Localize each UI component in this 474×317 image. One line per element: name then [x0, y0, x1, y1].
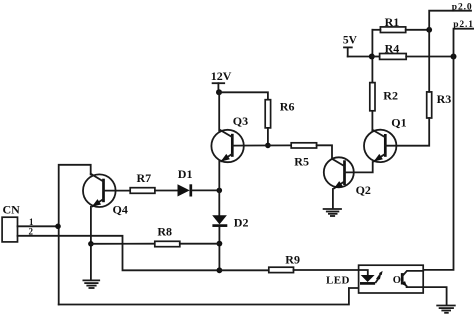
svg-text:Q2: Q2 — [356, 183, 371, 197]
wire R1 right lead to p2.0 node — [406, 29, 430, 31]
wire D1 to Q3 emitter line — [192, 189, 219, 191]
power 5V supply — [343, 35, 372, 57]
wire Q4 base to R7 — [104, 190, 131, 192]
wire R9 right lead to optocoupler LED anode — [294, 269, 359, 271]
power 12V supply — [211, 69, 232, 92]
optocoupler O1 box — [359, 265, 424, 293]
svg-text:R3: R3 — [437, 92, 452, 106]
wire Q4 emitter node to R8 — [91, 243, 155, 245]
node junction D2 / R9 line — [217, 267, 223, 273]
wire Q3 emitter down to D1 node — [218, 162, 220, 191]
node junction 5V / R4 left — [369, 54, 375, 60]
svg-text:CN: CN — [3, 203, 21, 217]
transistor Q1 — [364, 115, 407, 162]
wire CN pin 1 to left rail — [18, 225, 59, 227]
svg-text:p2.1: p2.1 — [453, 20, 474, 30]
svg-text:LED: LED — [326, 274, 350, 286]
node junction pin1/left rail — [55, 224, 61, 230]
wire R8 right lead to D2 node — [180, 243, 220, 245]
diode D2 — [212, 215, 248, 229]
ground below Q2 — [324, 209, 341, 216]
wire CN pin 2 elbow to D2 bottom node — [18, 236, 220, 270]
svg-text:p2.0: p2.0 — [452, 2, 473, 12]
wire right rail p2.1 down to optocoupler collector — [423, 57, 453, 270]
wire Q4 emitter down — [90, 207, 92, 280]
svg-text:D2: D2 — [234, 215, 249, 229]
wire R7 to D1 — [155, 190, 178, 192]
wire R5 to Q2 collector — [317, 145, 332, 159]
wire Q2 emitter to ground — [332, 189, 334, 209]
node junction D1 / Q3 emitter — [217, 188, 223, 194]
svg-text:R2: R2 — [383, 89, 398, 103]
wire R6 bottom lead — [267, 128, 269, 145]
node junction R6 / Q3 base — [265, 143, 271, 149]
svg-text:R7: R7 — [137, 171, 152, 185]
svg-text:R5: R5 — [294, 154, 309, 168]
transistor Q2 — [324, 157, 371, 197]
svg-text:R6: R6 — [280, 99, 295, 113]
resistor R9 — [269, 252, 300, 272]
wire left rail from Q4 collector loop down to bottom rail — [59, 165, 91, 305]
wire R4 right lead — [406, 56, 453, 58]
wire optocoupler emitter to ground — [423, 287, 446, 305]
node junction D2 / R8 — [217, 241, 223, 247]
resistor R7 — [130, 171, 155, 194]
wire D1 node down through D2 to R8/R9 nodes — [218, 190, 220, 215]
resistor R2 — [370, 83, 398, 111]
optocoupler light arrows — [376, 271, 383, 282]
optocoupler LED — [360, 275, 375, 283]
wire Q3 collector up to 12V node — [218, 92, 220, 130]
ground below optocoupler — [437, 306, 455, 313]
svg-text:D1: D1 — [178, 167, 193, 181]
node p2.1 — [453, 20, 474, 57]
label O (optocoupler) — [393, 275, 401, 286]
resistor R8 — [155, 225, 180, 247]
wire R3 top lead — [428, 30, 430, 92]
diode D1 — [178, 167, 193, 197]
transistor Q3 — [211, 114, 248, 162]
resistor R5 — [291, 143, 316, 169]
node junction R1 / R3 / p2.0 — [426, 27, 432, 33]
svg-text:Q1: Q1 — [391, 115, 406, 129]
node junction R4 / p2.1 — [451, 54, 457, 60]
wire R1 left lead — [372, 29, 380, 31]
wire D2 cathode down to R9 line — [218, 227, 220, 270]
svg-text:R9: R9 — [285, 252, 300, 266]
pin 1 label — [29, 217, 34, 227]
svg-text:R8: R8 — [157, 225, 172, 239]
ground below Q4 — [83, 280, 99, 288]
svg-text:5V: 5V — [343, 35, 358, 47]
resistor R4 — [380, 42, 407, 60]
node p2.0 — [429, 2, 472, 29]
wire R4 left lead — [372, 56, 380, 58]
resistor R3 — [427, 92, 452, 118]
svg-text:R4: R4 — [385, 42, 400, 56]
wire 12V node to R6 top — [219, 92, 268, 99]
svg-text:Q3: Q3 — [233, 114, 248, 128]
connector CN — [2, 203, 20, 242]
svg-text:Q4: Q4 — [113, 203, 128, 217]
label LED — [326, 274, 350, 286]
resistor R1 — [380, 15, 405, 32]
optocoupler phototransistor — [402, 271, 424, 287]
wire Q3 base to R5 — [232, 144, 291, 146]
svg-text:R1: R1 — [385, 15, 400, 29]
wire bottom rail to LED cathode — [59, 285, 368, 305]
pin 2 label — [29, 227, 34, 237]
svg-text:O: O — [393, 275, 401, 286]
optocoupler LED anode wire inside — [359, 270, 368, 275]
transistor Q4 — [83, 174, 128, 217]
resistor R6 — [265, 99, 294, 128]
wire Q2 base to Q1 emitter — [345, 162, 373, 172]
node junction Q4 emitter / R8 — [88, 241, 94, 247]
wire R2 top to 5V node — [371, 30, 373, 83]
wire R3 bottom to Q1 base — [385, 118, 429, 146]
svg-text:12V: 12V — [211, 69, 232, 83]
wire R9 left lead — [219, 269, 268, 271]
node junction 12V — [216, 89, 222, 95]
wire Q1 collector up to R2 — [371, 111, 373, 131]
